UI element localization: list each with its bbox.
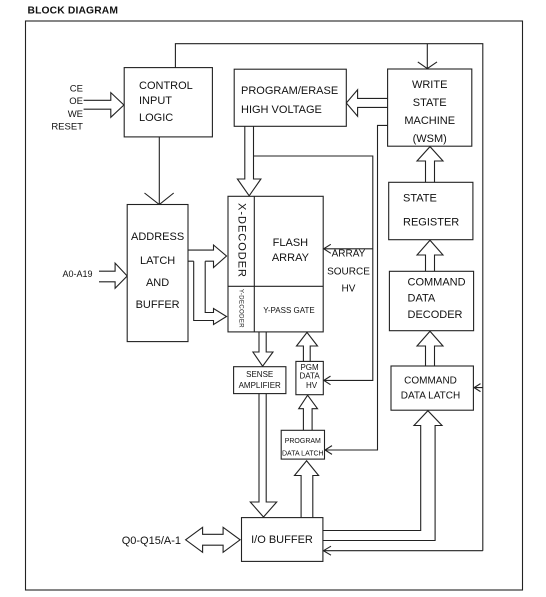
wire: arrow CONTROL INPUT LOGIC down to ADDRESS LATCH bbox=[145, 137, 174, 205]
bus arrow PROGRAM DATA LATCH up to PGM DATA HV bbox=[299, 395, 318, 430]
bus arrow CE/OE/WE/RESET into CONTROL INPUT LOGIC bbox=[84, 93, 124, 118]
svg-text:Y-PASS GATE: Y-PASS GATE bbox=[263, 306, 314, 315]
bus arrow PROGRAM/ERASE HV down to X-DECODER bbox=[237, 126, 261, 196]
svg-text:LOGIC: LOGIC bbox=[139, 112, 173, 124]
svg-text:COMMAND: COMMAND bbox=[408, 276, 466, 288]
box CONTROL INPUT LOGIC bbox=[124, 68, 212, 137]
wire: WSM left line down to PROGRAM DATA LATCH right side bbox=[325, 125, 388, 454]
wire: arrow from right rail into I/O BUFFER right side bbox=[323, 546, 483, 555]
svg-text:A0-A19: A0-A19 bbox=[62, 269, 92, 279]
svg-text:Q0-Q15/A-1: Q0-Q15/A-1 bbox=[122, 535, 181, 547]
svg-text:Y-DECODER: Y-DECODER bbox=[237, 289, 243, 328]
bus arrow ADDRESS LATCH to Y-DECODER (bent) bbox=[194, 261, 227, 324]
box ADDRESS LATCH AND BUFFER bbox=[127, 205, 188, 342]
svg-text:RESET: RESET bbox=[51, 121, 83, 132]
svg-text:PROGRAM/ERASE: PROGRAM/ERASE bbox=[241, 85, 338, 97]
box STATE REGISTER bbox=[389, 182, 473, 239]
box FLASH ARRAY block outer bbox=[228, 196, 323, 332]
svg-text:DATA LATCH: DATA LATCH bbox=[401, 391, 460, 402]
svg-text:REGISTER: REGISTER bbox=[403, 217, 459, 229]
svg-text:MACHINE: MACHINE bbox=[404, 115, 455, 127]
svg-text:ARRAY: ARRAY bbox=[272, 252, 310, 264]
bus arrow WSM to PROGRAM/ERASE HIGH VOLTAGE bbox=[346, 90, 387, 116]
box COMMAND DATA LATCH bbox=[391, 366, 473, 410]
svg-text:AND: AND bbox=[146, 277, 169, 289]
svg-text:ADDRESS: ADDRESS bbox=[131, 231, 184, 243]
box SENSE AMPLIFIER bbox=[234, 367, 286, 394]
wire: arrow from right rail into COMMAND DATA LATCH right side bbox=[474, 384, 483, 392]
svg-text:ARRAY: ARRAY bbox=[332, 249, 366, 260]
divider decoder column bbox=[253, 196, 255, 332]
bus arrow ADDRESS LATCH to X-DECODER bbox=[188, 245, 227, 268]
wire: arrow ARRAY SOURCE HV into FLASH ARRAY right side bbox=[323, 244, 373, 253]
bus arrow STATE REGISTER up to WSM bbox=[417, 147, 443, 183]
bus arrow I/O BUFFER up to PROGRAM DATA LATCH bbox=[295, 461, 319, 518]
bus arrow COMMAND DATA LATCH up to COMMAND DATA DECODER bbox=[417, 331, 443, 366]
svg-text:X-DECODER: X-DECODER bbox=[235, 203, 247, 278]
svg-text:DECODER: DECODER bbox=[408, 309, 463, 321]
bus arrow PGM DATA HV up to Y-PASS GATE bbox=[297, 332, 318, 361]
box I/O BUFFER bbox=[242, 518, 323, 562]
svg-text:STATE: STATE bbox=[403, 193, 437, 205]
box WRITE STATE MACHINE (WSM) bbox=[388, 69, 472, 146]
svg-text:SOURCE: SOURCE bbox=[327, 267, 370, 278]
svg-text:DATA LATCH: DATA LATCH bbox=[282, 451, 324, 458]
svg-text:COMMAND: COMMAND bbox=[404, 376, 457, 387]
svg-text:LATCH: LATCH bbox=[140, 255, 175, 267]
divider y-pass gate bbox=[228, 285, 323, 287]
svg-text:CONTROL: CONTROL bbox=[139, 80, 193, 92]
svg-text:(WSM): (WSM) bbox=[413, 133, 447, 145]
box COMMAND DATA DECODER bbox=[389, 271, 473, 330]
net label ARRAY SOURCE HV bbox=[327, 249, 370, 295]
bus arrow Q0-Q15/A-1 double-headed to I/O BUFFER bbox=[186, 527, 241, 552]
svg-text:HV: HV bbox=[342, 284, 356, 295]
svg-text:DATA: DATA bbox=[300, 371, 321, 380]
svg-text:DATA: DATA bbox=[408, 292, 436, 304]
svg-text:WE: WE bbox=[68, 109, 83, 120]
svg-text:HIGH VOLTAGE: HIGH VOLTAGE bbox=[241, 104, 322, 116]
svg-text:PROGRAM: PROGRAM bbox=[285, 438, 321, 445]
wire: control top bus from CONTROL INPUT LOGIC to right rail bbox=[175, 44, 482, 551]
svg-text:I/O BUFFER: I/O BUFFER bbox=[251, 534, 313, 546]
svg-text:INPUT: INPUT bbox=[139, 95, 172, 107]
bus arrow I/O BUFFER up to COMMAND DATA LATCH (bent) bbox=[323, 411, 442, 541]
bus arrow SENSE AMPLIFIER down to I/O BUFFER bbox=[250, 394, 276, 517]
bus arrow COMMAND DATA DECODER up to STATE REGISTER bbox=[417, 240, 443, 271]
svg-text:BLOCK DIAGRAM: BLOCK DIAGRAM bbox=[28, 6, 119, 17]
bus arrow A0-A19 into ADDRESS LATCH bbox=[99, 263, 127, 288]
svg-text:STATE: STATE bbox=[413, 97, 447, 109]
svg-text:OE: OE bbox=[69, 96, 83, 107]
box PGM DATA HV bbox=[296, 361, 323, 394]
box PROGRAM DATA LATCH bbox=[281, 430, 324, 459]
wire: arrow into WRITE STATE MACHINE top bbox=[418, 44, 437, 69]
svg-text:WRITE: WRITE bbox=[412, 79, 447, 91]
box PROGRAM/ERASE HIGH VOLTAGE bbox=[234, 69, 346, 126]
wire: HV line from PROGRAM/ERASE down right side bbox=[254, 156, 373, 385]
svg-text:BUFFER: BUFFER bbox=[136, 299, 180, 311]
svg-text:HV: HV bbox=[306, 381, 318, 390]
svg-text:AMPLIFIER: AMPLIFIER bbox=[239, 381, 281, 390]
bus arrow Y-PASS GATE down to SENSE AMPLIFIER bbox=[253, 332, 273, 366]
svg-text:SENSE: SENSE bbox=[246, 370, 273, 379]
svg-text:FLASH: FLASH bbox=[273, 237, 309, 249]
svg-text:CE: CE bbox=[70, 84, 83, 95]
